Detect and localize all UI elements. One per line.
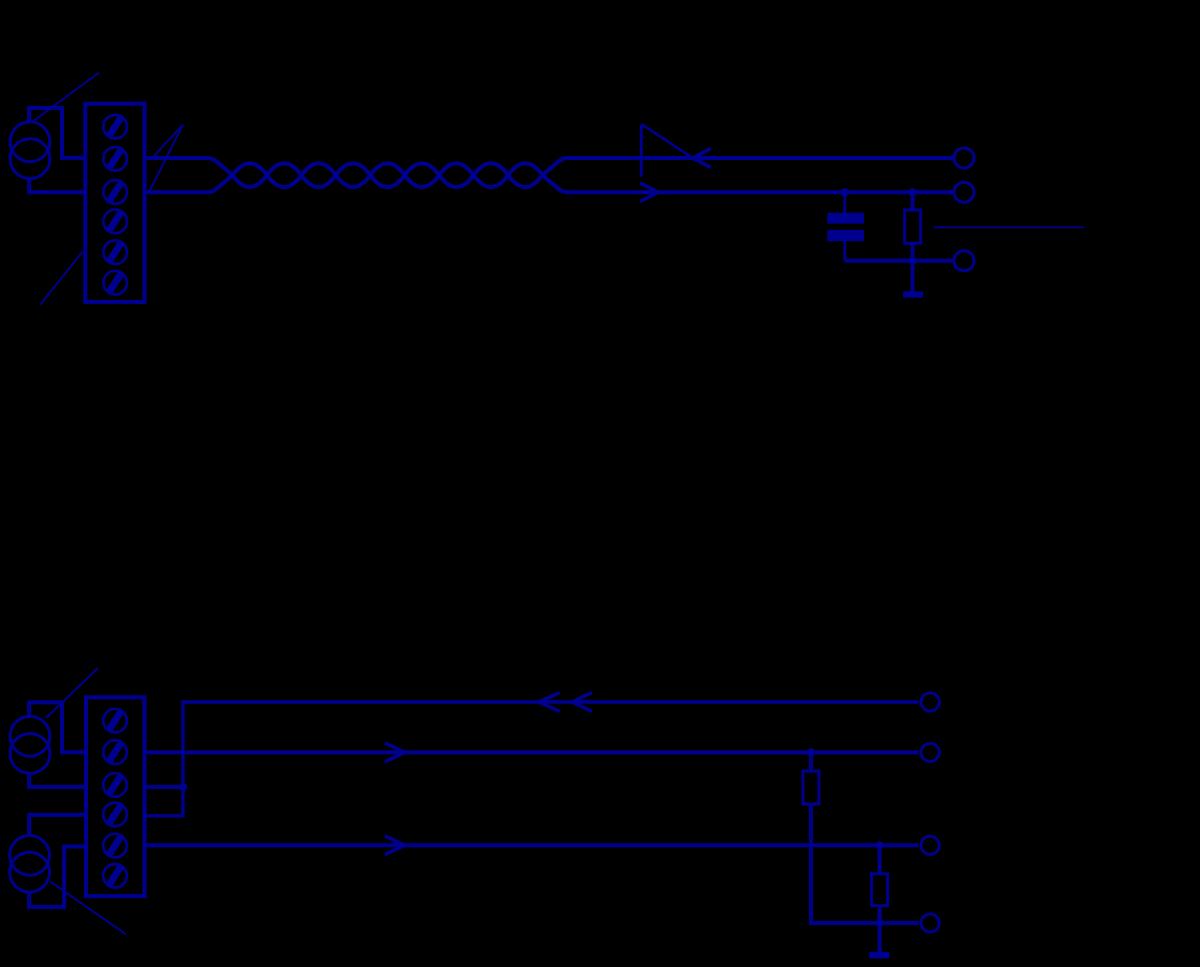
wire: XMTR1 - terminal to block pin 3 (29, 180, 85, 192)
current transmitter XMTR2 (two overlapping circles) (10, 716, 50, 773)
wire: XMTR2 - terminal to block pin 3 (29, 775, 86, 787)
screw terminal TB2 pin 5 (103, 834, 127, 858)
screw terminal TB2 pin 3 (103, 773, 127, 797)
resistor R3 lead bottom (878, 908, 882, 923)
terminal circle T1 (top) (954, 148, 974, 168)
resistor R3 lead top (878, 845, 882, 872)
screw terminal TB1 pin 2 (103, 147, 127, 171)
terminal circle T2 (954, 182, 974, 202)
leader line to transmitter XMTR2 (46, 668, 98, 718)
resistor R2 lead bottom + bottom bus to terminal (811, 806, 919, 923)
wire: XMTR2 + terminal to block pin 2 (29, 702, 86, 752)
line 3: block pin 5 to terminal (145, 843, 919, 847)
loop current annotation: diagonal to arrow tip (641, 124, 692, 158)
junction dot C (ground junction) (908, 257, 916, 265)
wire: XMTR3 + terminal to block pin 4 (29, 815, 86, 835)
twisted pair strand A (top conductor) (145, 158, 953, 187)
current transmitter XMTR3 (two overlapping circles) (10, 836, 50, 892)
ground G1 bar (903, 291, 923, 297)
junction dot F (R3 tap) (875, 841, 883, 849)
ground G1 stub (911, 261, 915, 292)
ground G2 stub (878, 923, 882, 952)
wire: block pin 3 to trunk junction (145, 785, 184, 789)
arrowhead right on line 2 (385, 743, 405, 762)
screw terminal TB1 pin 1 (103, 115, 127, 139)
double arrowhead left on line 1 (539, 693, 560, 712)
resistor R3 body (872, 874, 888, 906)
twisted pair strand B (bottom conductor) (145, 163, 953, 192)
resistor R1 body (905, 210, 921, 243)
screw terminal TB2 pin 1 (103, 709, 127, 733)
terminal circle T3 (ground) (954, 251, 974, 271)
screw terminal TB2 pin 4 (103, 803, 127, 827)
arrowhead right on line 3 (385, 836, 405, 855)
leader line to resistor R1 (933, 226, 1084, 228)
wire: block pin 4 jumper + trunk + line 1 (145, 702, 919, 816)
junction dot B (resistor tap) (908, 188, 916, 196)
junction dot E (R2 tap) (807, 748, 815, 756)
resistor R1 leads (911, 192, 915, 208)
terminal circle T6 (line 3) (921, 836, 939, 854)
wire: bottom bus to ground terminal (845, 259, 953, 263)
wire: XMTR3 - terminal to block pin 5 (29, 847, 86, 908)
terminal circle T4 (line 1) (921, 693, 939, 711)
terminal circle T5 (line 2) (921, 743, 939, 761)
screw terminal TB1 pin 4 (103, 210, 127, 234)
twisted pair marker slashes (149, 125, 183, 192)
leader line to terminal block TB1 (40, 252, 82, 305)
screw terminal TB1 pin 6 (103, 271, 127, 295)
screw terminal TB1 pin 3 (103, 180, 127, 204)
resistor R2 body (803, 771, 819, 804)
wire: XMTR1 + terminal to block pin 2 (29, 108, 85, 158)
current transmitter XMTR1 (two overlapping circles) (10, 122, 50, 179)
ground G2 bar (869, 952, 889, 959)
loop current annotation: vertical tick (640, 124, 643, 177)
capacitor C1 leads (843, 192, 846, 213)
screw terminal TB1 pin 5 (103, 240, 127, 264)
resistor R2 lead top (809, 752, 813, 769)
leader line to transmitter XMTR1 (34, 73, 99, 121)
junction dot D (trunk) (179, 783, 187, 791)
junction dot G (ground junction) (875, 919, 883, 927)
terminal block TB2 (86, 697, 145, 896)
screw terminal TB2 pin 2 (103, 740, 127, 764)
screw terminal TB2 pin 6 (103, 864, 127, 888)
junction dot A (cap tap) (841, 188, 849, 196)
terminal block TB1 (85, 104, 144, 302)
terminal circle T7 (bottom) (921, 914, 939, 932)
capacitor C1 plates (827, 213, 864, 241)
line 2: block pin 2 to terminal (145, 750, 919, 754)
leader line from transmitter XMTR3 (50, 882, 126, 935)
arrowhead left on top wire (693, 149, 711, 168)
arrowhead right on bottom wire (return current) (640, 183, 658, 202)
